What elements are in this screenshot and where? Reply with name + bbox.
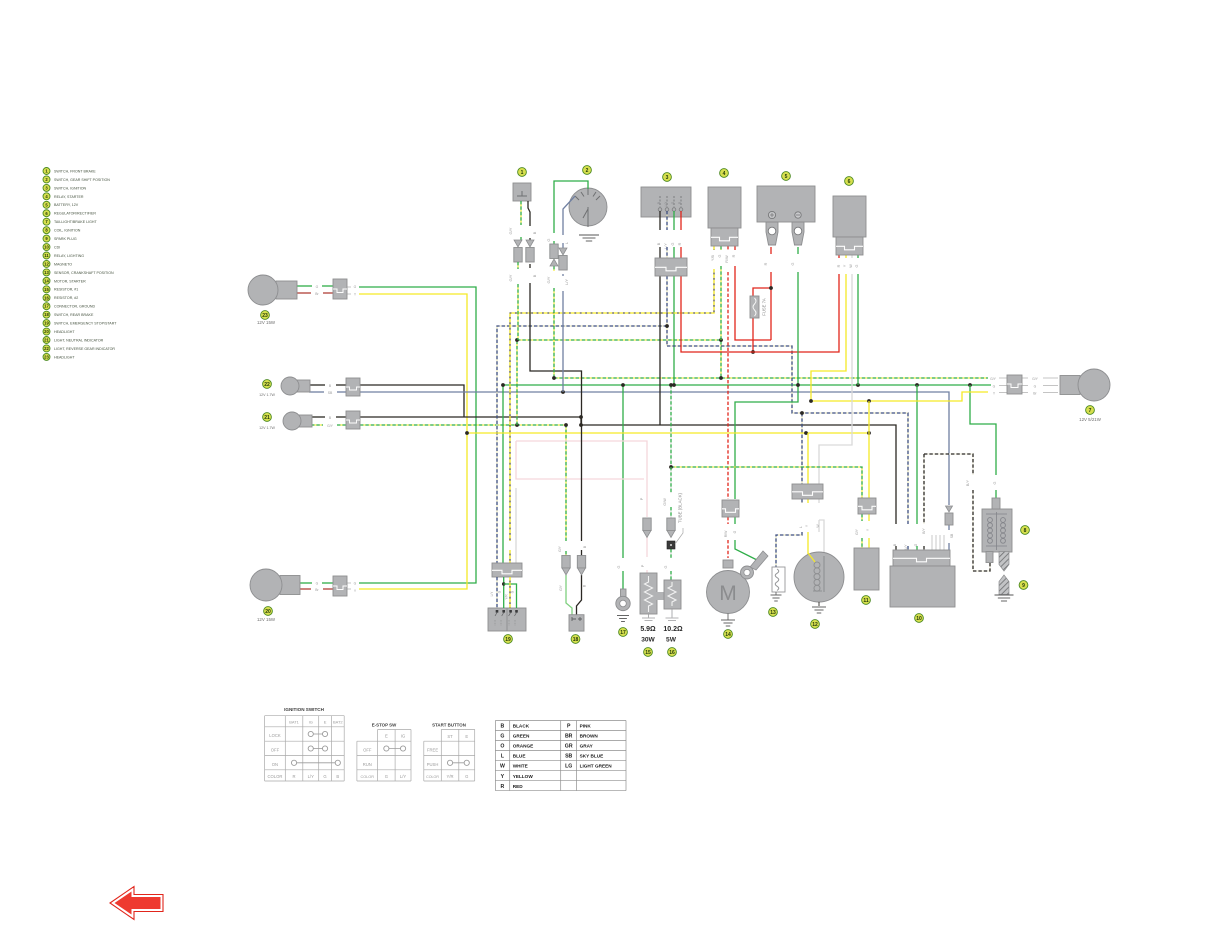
svg-text:LIGHT, REVERSE GEAR INDICATOR: LIGHT, REVERSE GEAR INDICATOR [54,347,115,351]
wire ground17 green drop [622,385,624,558]
svg-text:Y: Y [501,774,505,780]
svg-text:14: 14 [725,632,731,638]
connector block switch 19 [492,563,522,577]
wire motor R/W lead below connector [727,517,729,524]
svg-text:G: G [733,530,737,533]
svg-text:MOTOR, STARTER: MOTOR, STARTER [54,279,86,283]
resistor bridge [655,592,664,600]
relay lighting 11 [858,498,876,514]
wire CDI stub pins [931,535,933,550]
headlight 23 [276,281,297,299]
svg-text:ORANGE: ORANGE [513,744,534,749]
svg-text:SWITCH, IGNITION: SWITCH, IGNITION [54,186,87,190]
switch rear brake 18 [562,556,570,569]
headlight 20 [280,576,300,595]
svg-text:8: 8 [1024,528,1027,534]
wire G/W drop to resistor16 [670,385,672,467]
svg-text:20: 20 [44,329,49,334]
wire G/Y bus bulb21 to switch18 [360,425,566,541]
svg-text:12: 12 [812,622,818,628]
svg-text:1: 1 [521,170,524,176]
light reverse gear indicator 22 [297,380,310,392]
red navigation arrow [110,887,163,920]
svg-text:G/Y: G/Y [508,274,513,281]
svg-text:12V 5/21W: 12V 5/21W [1079,417,1102,422]
wire R/W starter relay to starter motor [727,246,729,250]
wire battery R down [770,247,772,254]
svg-text:P: P [640,497,644,500]
svg-text:G: G [914,543,918,546]
svg-text:SB: SB [565,754,572,760]
wire green bus y385 to taillight [502,384,991,386]
svg-text:B: B [657,202,661,204]
svg-text:16: 16 [44,295,49,300]
wire L/Y lower route y346-y413 to CDI [667,346,908,524]
wire relay11 G/Y lead below connector [861,514,863,521]
wire comp2 L from switch [563,196,575,235]
svg-text:G/Y: G/Y [508,227,513,234]
svg-text:G: G [1034,385,1037,389]
wire battery G down to motor feed [797,247,799,254]
wire headlight20 G lead [300,582,312,584]
svg-text:G: G [791,262,795,265]
wire G/Y bus y467 to lighting relay [671,467,862,498]
wire starter relay G/Y drop to bus [720,246,722,250]
wires connector19 to switch19 [496,577,498,608]
svg-text:LIGHT GREEN: LIGHT GREEN [580,764,613,769]
switch emergency stop-start 19 [488,608,526,631]
wire coil G feed [970,385,996,475]
svg-text:L/Y: L/Y [400,774,406,779]
wire fuse bottom to red bus [752,318,754,352]
svg-text:R: R [837,264,841,267]
svg-text:22: 22 [44,346,49,351]
motor ground ring lug [750,551,768,570]
wire conn19 4th lead [515,488,517,563]
svg-text:B: B [532,231,537,234]
svg-text:G: G [385,774,388,779]
svg-text:21: 21 [264,415,270,421]
svg-text:B/Y: B/Y [966,479,970,486]
connector bulb 22 [346,378,360,396]
svg-text:R: R [732,254,736,257]
wire bulb22 B lead [309,384,325,386]
taillight brake light 7 [1060,376,1080,395]
svg-text:R: R [501,784,505,790]
svg-text:22: 22 [264,382,270,388]
svg-text:G: G [354,582,357,586]
svg-text:LIGHT, NEUTRAL INDICATOR: LIGHT, NEUTRAL INDICATOR [54,338,104,342]
svg-text:WHITE: WHITE [513,764,528,769]
wire regulator G to green bus [857,255,859,258]
svg-text:Y/B: Y/B [711,254,715,261]
svg-text:O: O [500,744,504,750]
light neutral indicator 21 [299,415,312,427]
svg-text:E: E [324,720,327,725]
svg-text:L/Y: L/Y [564,279,569,285]
svg-text:PUSH: PUSH [427,762,439,767]
wire sensor L lead [801,499,803,503]
svg-text:RED: RED [513,784,524,789]
svg-text:SWITCH, EMERGENCY STOP/START: SWITCH, EMERGENCY STOP/START [54,322,117,326]
svg-text:P: P [567,724,571,730]
wire L/Y ignition branch y326 to conn19 [666,276,668,346]
svg-text:SB: SB [950,533,954,538]
svg-text:OFF: OFF [271,748,280,753]
svg-text:E-STOP SW: E-STOP SW [372,723,397,728]
svg-text:G: G [993,385,996,389]
svg-text:G/W: G/W [663,498,667,506]
fuse 7A [750,296,759,318]
svg-text:19: 19 [505,637,511,643]
svg-text:17: 17 [620,630,626,636]
connector ground 17 [621,589,627,598]
svg-text:BLACK: BLACK [513,724,530,729]
svg-text:BAT1: BAT1 [289,720,299,725]
connector block regulator [836,237,863,255]
svg-text:G/Y: G/Y [855,528,859,535]
svg-text:R/W: R/W [724,530,728,537]
resistor #2 16 [667,518,675,531]
switch ignition 3 [663,173,672,182]
svg-text:18: 18 [573,637,579,643]
wire magneto conn Y drop [807,433,809,484]
wire ignition B drop [659,276,661,425]
svg-text:R/W: R/W [725,255,729,263]
svg-text:FREE: FREE [427,748,438,753]
svg-text:13: 13 [770,610,776,616]
svg-text:9: 9 [1022,583,1025,589]
connector pair comp1 right [526,240,534,247]
svg-text:TUBE (BLACK): TUBE (BLACK) [678,492,683,523]
svg-text:7: 7 [1089,408,1092,414]
svg-text:P: P [641,564,645,567]
svg-text:SWITCH, REAR BRAKE: SWITCH, REAR BRAKE [54,313,94,317]
svg-text:G/Y: G/Y [559,584,563,591]
svg-text:19: 19 [44,321,49,326]
wire regulator W to magneto connector [851,255,853,258]
connector pair comp1 left [514,240,522,247]
spark plug 9 [999,575,1009,595]
svg-text:W: W [500,764,505,770]
wire SB long bus bulb22 to CDI [360,392,949,505]
svg-text:21: 21 [44,338,49,343]
svg-text:13: 13 [44,270,49,275]
wire red bus y352 ignition to regulator [681,274,839,352]
wire motor G below connector to ground lug [734,517,736,524]
svg-text:GRAY: GRAY [580,744,594,749]
svg-text:SENSOR, CRANKSHAFT POSITION: SENSOR, CRANKSHAFT POSITION [54,271,114,275]
svg-text:G: G [323,774,326,779]
svg-text:COLOR: COLOR [360,775,374,779]
svg-text:R: R [764,262,768,265]
svg-text:B: B [532,274,537,277]
svg-text:SB: SB [328,391,333,395]
svg-text:11: 11 [863,598,869,604]
svg-text:START BUTTON: START BUTTON [432,723,466,728]
svg-text:R: R [678,242,682,245]
svg-text:18: 18 [44,312,49,317]
svg-text:5W: 5W [666,637,677,644]
svg-text:BROWN: BROWN [580,734,599,739]
wire green bus taps for CDI and coil [856,383,860,387]
wire G/Y bus y340 [517,340,721,378]
svg-text:G: G [354,285,357,289]
svg-text:G: G [546,238,551,241]
magneto 12 [792,484,823,499]
svg-text:COIL, IGNITION: COIL, IGNITION [54,229,81,233]
wire black net bulb22 to junction [360,385,464,417]
svg-text:CDI: CDI [54,245,60,249]
battery right lug [792,222,804,245]
svg-text:TAILLIGHT/BRAKE LIGHT: TAILLIGHT/BRAKE LIGHT [54,220,97,224]
svg-text:10: 10 [916,616,922,622]
svg-text:M: M [719,582,737,605]
svg-text:G: G [316,285,319,289]
wire Y/B starter relay to conn19 [713,246,715,250]
wire battery R to fuse top [753,288,771,296]
svg-text:RESISTOR, #1: RESISTOR, #1 [54,288,78,292]
wire comp2 L drop to SB bus [562,274,564,276]
svg-text:G/Y: G/Y [990,377,997,381]
svg-text:12V 1.7W: 12V 1.7W [259,426,275,430]
connector pair comp2 left [550,244,558,259]
switch gear shift position 2 [583,166,592,175]
resistor ground stems [642,614,655,621]
svg-text:IG: IG [401,734,405,739]
svg-text:5.9Ω: 5.9Ω [640,626,656,633]
svg-text:GR: GR [565,744,573,750]
svg-text:G: G [855,264,859,267]
svg-text:15: 15 [645,650,651,656]
wire bulb22 SB lead [309,391,324,393]
svg-text:G: G [500,734,504,740]
ignition coil 8 [982,509,1012,552]
svg-text:G: G [993,481,997,484]
svg-text:E: E [385,734,388,739]
svg-text:6: 6 [848,179,851,185]
svg-text:HEADLIGHT: HEADLIGHT [54,330,75,334]
wire switch18 leads below connectors [566,575,572,615]
svg-text:10: 10 [44,245,49,250]
wire relay11 Y drop [868,433,870,498]
svg-text:12V 15W: 12V 15W [257,320,276,325]
wire comp1 B drop to switch18 [529,264,531,268]
ground under motor [727,614,729,621]
svg-text:14: 14 [44,278,49,283]
relay starter 4 [720,169,729,178]
wire bulb21 G/Y lead [311,424,323,426]
svg-text:GREEN: GREEN [513,734,530,739]
connector taillight [1007,375,1022,394]
wire color code table [495,720,626,722]
wire comp1 G/Y drop [517,284,519,340]
wire CDI B/Y to ignition coil [924,454,973,475]
svg-text:17: 17 [44,304,49,309]
svg-text:PINK: PINK [580,724,592,729]
svg-text:RESISTOR, #2: RESISTOR, #2 [54,296,78,300]
connector headlight 23 [333,279,347,299]
wire Y bus headlight23 to headlight20 [359,294,467,589]
wire black bus y425 to CDI [581,425,896,524]
svg-text:YELLOW: YELLOW [513,774,534,779]
wire conn19 green drop [502,385,504,563]
svg-text:MAGNETO: MAGNETO [54,262,72,266]
svg-text:B/Y: B/Y [922,528,926,534]
wire headlight23 Br lead [296,292,311,294]
svg-text:2: 2 [586,168,589,174]
tube black callout [675,528,683,544]
wire bulb21 B lead [311,416,325,418]
svg-text:COLOR: COLOR [267,774,282,779]
svg-text:E: E [465,734,468,739]
svg-text:IGNITION SWITCH: IGNITION SWITCH [284,707,324,712]
wire P pink loop to resistor15 [516,441,647,517]
connector block relay starter [711,228,738,246]
wire comp2 G/Y drop [553,266,555,271]
svg-text:BAT2: BAT2 [333,720,343,725]
ground under switch 2 [579,234,599,236]
svg-text:3: 3 [666,175,669,181]
battery 12V 5 [782,172,791,181]
motor starter 14 [722,500,739,517]
svg-text:RELAY, LIGHTING: RELAY, LIGHTING [54,254,84,258]
svg-text:BLUE: BLUE [513,754,526,759]
svg-text:BR: BR [565,734,573,740]
wire magneto W lead [818,499,820,503]
wire P below connector [646,537,648,557]
svg-text:16: 16 [669,650,675,656]
switch front brake 1 [518,168,527,177]
svg-text:ST: ST [447,734,453,739]
wire L branch to magneto connector [801,413,803,484]
legend list of components 1-23 [43,168,50,175]
wires ignition switch to connector [659,211,661,230]
wire yellow riser to lower bus [868,401,870,433]
regulator rectifier 6 [845,177,854,186]
svg-text:G: G [617,565,621,568]
svg-text:SWITCH, FRONT BRAKE: SWITCH, FRONT BRAKE [54,169,96,173]
connector headlight 20 [333,576,347,596]
svg-text:R: R [293,774,296,779]
wire starter relay R to battery R [734,246,736,250]
wire CDI G drop [916,385,918,524]
svg-text:ON: ON [272,762,278,767]
svg-text:CONNECTOR, GROUND: CONNECTOR, GROUND [54,305,95,309]
svg-text:HEADLIGHT: HEADLIGHT [54,355,75,359]
connector bulb 21 [346,411,360,429]
svg-text:12: 12 [44,261,49,266]
svg-text:W: W [849,264,853,268]
svg-text:Y/R: Y/R [505,594,509,600]
wire regulator Y to upper yellow bus [845,255,847,258]
svg-text:SWITCH, GEAR SHIFT POSITION: SWITCH, GEAR SHIFT POSITION [54,178,110,182]
svg-text:REGULATOR/RECTIFIER: REGULATOR/RECTIFIER [54,212,96,216]
wire comp2 G top loop [554,181,588,233]
svg-text:RELAY, STARTER: RELAY, STARTER [54,195,84,199]
svg-text:G: G [664,565,668,568]
svg-text:23: 23 [44,354,49,359]
svg-text:L/Y: L/Y [308,774,314,779]
wire magneto Y lead [807,499,809,503]
connector block ignition switch [655,258,687,276]
svg-text:Y/R: Y/R [447,774,454,779]
wire yellow upper bus y401 to taillight [811,392,988,401]
svg-text:G/Y: G/Y [546,276,551,283]
svg-text:G/Y: G/Y [327,424,334,428]
wire black bus y417 bulb21 to junction x581 [360,417,581,425]
taillight label leader lines [999,377,1007,379]
svg-text:5: 5 [785,174,788,180]
svg-text:15: 15 [44,287,49,292]
wire headlight23 G lead [296,285,312,287]
coil top terminal [992,498,1000,509]
svg-text:12V 15W: 12V 15W [257,617,276,622]
sensor crankshaft position 13 [772,567,785,592]
svg-text:G/Y: G/Y [1032,377,1039,381]
wire G/Y riser x517 to bus y340 [516,340,518,425]
svg-text:12V 1.7W: 12V 1.7W [259,393,275,397]
wire ignition G drop to bus [673,276,675,385]
connector pair comp2 right [559,248,567,255]
wire yellow bus y433 [467,432,869,434]
CDI unit 10 [893,550,950,566]
svg-text:BATTERY, 12V: BATTERY, 12V [54,203,79,207]
resistor #1 15 [643,518,651,531]
svg-text:30W: 30W [641,637,655,644]
wire G/Y bus y378 to taillight [554,377,988,379]
svg-text:SKY BLUE: SKY BLUE [580,754,604,759]
wire headlight20 Br lead [300,588,311,590]
wire green bus headlight23 to headlight20 [359,287,476,583]
svg-text:G: G [316,582,319,586]
svg-text:G: G [671,242,675,245]
svg-text:Y: Y [843,264,847,267]
svg-text:RUN: RUN [363,762,372,767]
svg-text:L: L [799,526,803,528]
SB arrow into CDI [946,506,953,512]
coil bottom terminal [986,552,993,563]
svg-text:B: B [657,242,661,245]
svg-text:COLOR: COLOR [426,775,439,779]
svg-text:IG: IG [309,720,313,725]
svg-text:11: 11 [44,253,49,258]
svg-text:G/Y: G/Y [558,545,562,552]
svg-text:B: B [501,724,505,730]
battery left lug [766,222,778,245]
svg-text:OFF: OFF [363,748,372,753]
svg-text:4: 4 [723,171,726,177]
svg-text:LG: LG [565,764,572,770]
svg-text:G: G [718,254,722,257]
svg-text:FUSE 7A: FUSE 7A [762,298,767,316]
svg-text:B: B [336,774,339,779]
svg-text:LOCK: LOCK [269,733,281,738]
svg-text:10.2Ω: 10.2Ω [663,626,683,633]
svg-text:20: 20 [265,609,271,615]
svg-text:23: 23 [262,313,268,319]
svg-text:SPARK PLUG: SPARK PLUG [54,237,77,241]
svg-text:L/Y: L/Y [904,544,908,550]
svg-text:G: G [465,774,468,779]
